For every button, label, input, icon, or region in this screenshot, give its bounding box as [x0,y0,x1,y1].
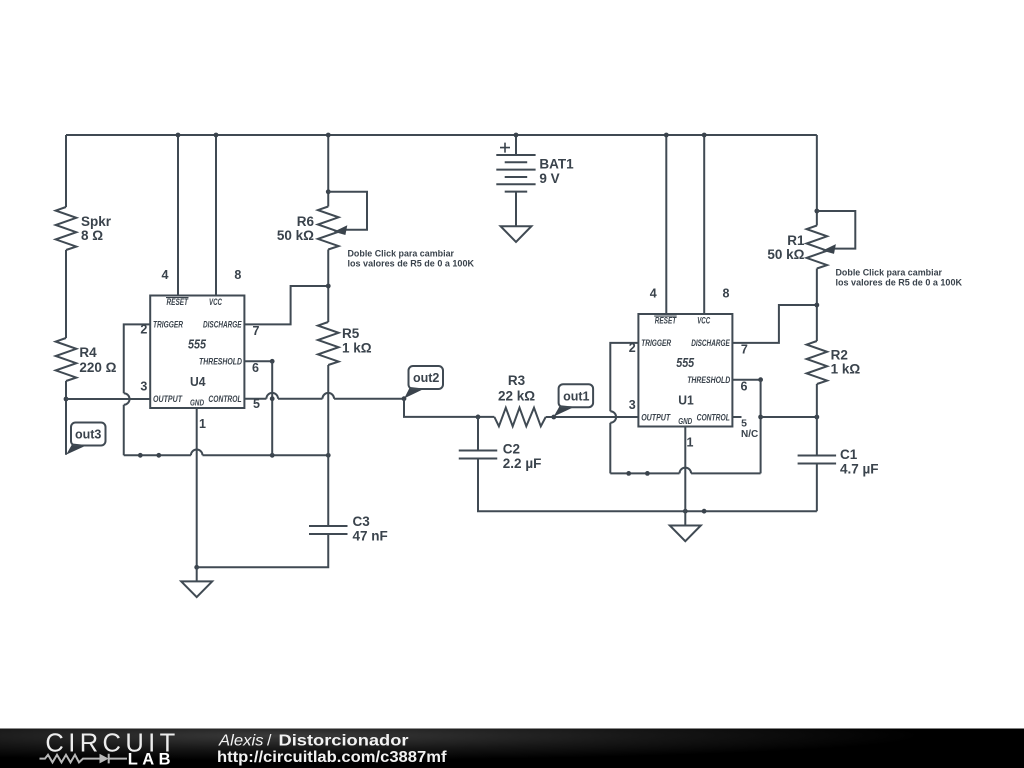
svg-text:3: 3 [629,398,636,412]
svg-text:LAB: LAB [128,751,175,768]
wire R5 bottom to rail [327,365,329,455]
resistor Spkr 8 ohm [56,207,112,250]
junction dot U1 control cross [758,415,763,420]
svg-text:50 kΩ: 50 kΩ [767,247,804,262]
junction dot C2 branch [476,415,481,420]
svg-text:out1: out1 [563,389,589,403]
wire U1 bottom rail [610,468,760,474]
svg-text:Spkr: Spkr [81,214,112,229]
svg-text:5: 5 [741,418,747,430]
svg-text:R5: R5 [342,326,360,341]
wire left column (Spkr/R4 branch) [65,135,67,455]
wire U4 pin 8 to rail [215,135,217,296]
node out3 flag [66,423,105,455]
junction dot rail pin8 U4 [214,133,219,138]
wire U4 TRIGGER pin 2 down-loop [124,324,150,455]
svg-text:1: 1 [687,436,694,450]
wire U1 pin 8 to rail [703,135,705,314]
capacitor C3 47 nF [309,514,388,544]
note double click R5 right [836,268,963,289]
ground symbol battery [501,192,532,242]
potentiometer R1 50 kohm [767,226,827,269]
junction dot rail battery [514,133,519,138]
svg-text:555: 555 [188,337,207,351]
svg-text:6: 6 [741,380,748,394]
resistor R5 1 kohm [318,322,372,365]
wire U1 DISCHARGE pin 7 to R1/R2 junction [732,305,816,343]
wire U1 threshold vertical [760,380,762,474]
svg-text:50 kΩ: 50 kΩ [277,228,314,243]
potentiometer R6 50 kohm [277,207,339,250]
svg-text:OUTPUT: OUTPUT [641,413,671,423]
note double click R5 left [348,249,475,270]
node out2 flag [404,366,443,398]
potentiometer R1 wiper loop [817,211,855,254]
junction dot R1 top [814,209,819,214]
svg-text:R4: R4 [79,345,97,360]
op-amp/timer U1 555 box [638,314,732,427]
svg-text:5: 5 [253,397,260,411]
resistor R3 22 kohm [494,373,545,426]
svg-text:4: 4 [650,287,657,301]
logo resistor-diode squiggle [40,754,128,764]
junction dot bottom rail b [156,453,161,458]
junction dot ground run U1 [683,509,688,514]
svg-text:8 Ω: 8 Ω [81,228,103,243]
junction dot ground run b [702,509,707,514]
wire U4 GND pin 1 to ground [196,408,198,567]
wire U4 CONTROL pin 5 to out2 node [244,393,404,399]
junction dot rail pin4 U1 [664,133,669,138]
junction dot C1 column [814,415,819,420]
svg-text:VCC: VCC [697,316,710,326]
wire U4 bottom rail [124,450,329,456]
svg-text:47 nF: 47 nF [353,529,388,544]
ground symbol U1 [670,511,701,541]
svg-text:4: 4 [162,268,169,282]
junction dot bottom rail threshold branch [270,453,275,458]
junction dot control/threshold cross [270,396,275,401]
svg-text:7: 7 [253,324,260,338]
junction dot R6 top [326,189,331,194]
wire threshold vertical to bottom rail [271,361,273,455]
svg-text:VCC: VCC [209,297,222,307]
junction dot U1 threshold [758,377,763,382]
svg-text:2: 2 [629,341,636,355]
svg-text:TRIGGER: TRIGGER [153,320,183,330]
svg-text:1: 1 [199,417,206,431]
svg-text:220 Ω: 220 Ω [79,360,116,375]
svg-text:GND: GND [678,416,692,426]
svg-text:C3: C3 [353,514,371,529]
svg-text:U1: U1 [678,393,694,408]
wire R3 to U1 OUTPUT [546,416,639,418]
svg-text:GND: GND [190,398,204,408]
ground symbol U4 [181,567,212,597]
svg-text:R6: R6 [297,214,315,229]
wire R4 node to U4 OUTPUT pin 3 [66,398,150,400]
svg-text:BAT1: BAT1 [539,157,574,172]
wire C3 branch [327,455,329,526]
wire U1 CONTROL pin 5 N/C stub [732,416,741,418]
svg-text:R1: R1 [787,233,805,248]
wire U1 TRIGGER pin 2 down-loop [610,343,638,474]
svg-text:6: 6 [252,361,259,375]
svg-text:R2: R2 [831,348,848,363]
svg-text:out2: out2 [413,371,439,385]
junction dot out2 node [402,396,407,401]
svg-text:2.2 µF: 2.2 µF [503,456,542,471]
node out1 flag [554,384,593,416]
svg-text:U4: U4 [190,374,206,389]
svg-text:THRESHOLD: THRESHOLD [687,375,730,385]
wire U1 GND pin 1 to ground node [684,427,686,512]
wire R6 to R5 [327,250,329,323]
svg-text:CONTROL: CONTROL [208,394,241,404]
wire top power rail [66,134,817,136]
wire C2 bottom to ground run [478,459,817,512]
pin number labels U4 [140,268,260,431]
svg-text:555: 555 [676,356,695,370]
junction dot U4 threshold [270,359,275,364]
wire U4 THRESHOLD pin 6 stub [244,360,272,362]
svg-text:N/C: N/C [741,429,758,440]
junction dot R1/R2/discharge [814,303,819,308]
wire R1 branch from rail [816,135,818,226]
svg-text:los valores de R5 de 0 a 100K: los valores de R5 de 0 a 100K [836,278,963,289]
svg-text:9 V: 9 V [539,171,559,186]
svg-text:http://circuitlab.com/c3887mf: http://circuitlab.com/c3887mf [217,749,447,766]
junction dot rail pin8 U1 [702,133,707,138]
resistor R4 220 ohm [56,338,117,381]
junction dot R6/R5/discharge [326,284,331,289]
svg-text:Distorcionador: Distorcionador [279,732,409,749]
svg-text:1 kΩ: 1 kΩ [831,362,861,377]
svg-text:TRIGGER: TRIGGER [641,338,671,348]
svg-text:CONTROL: CONTROL [697,413,730,423]
junction dot left node [64,397,69,402]
svg-text:RESET: RESET [655,316,678,326]
wire C1 bottom [816,464,818,512]
junction dot rail R6 [326,133,331,138]
capacitor C1 4.7 uF [798,447,879,477]
wire out2 to R3 [404,399,494,417]
junction dot U4 ground node [194,565,199,570]
svg-text:C1: C1 [840,447,858,462]
junction dot U1 rail a [626,471,631,476]
capacitor C2 2.2 uF [459,442,542,472]
svg-text:1 kΩ: 1 kΩ [342,341,372,356]
svg-text:22 kΩ: 22 kΩ [498,389,535,404]
svg-text:8: 8 [723,287,730,301]
wire R1 to R2 [816,269,818,342]
resistor R2 1 kohm [807,341,861,384]
svg-text:RESET: RESET [167,297,190,307]
wire U4 DISCHARGE pin 7 to R5/R6 junction [244,286,328,324]
svg-text:out3: out3 [75,428,101,442]
wire U4 pin 4 to rail [177,135,179,296]
svg-text:los valores de R5 de 0 a 100K: los valores de R5 de 0 a 100K [348,259,475,270]
junction dot rail pin4 U4 [176,133,181,138]
wire C3 bottom to ground node [197,534,329,567]
svg-text:THRESHOLD: THRESHOLD [199,356,242,366]
potentiometer R6 50k wiper loop [328,192,367,235]
svg-text:C2: C2 [503,442,520,457]
svg-text:8: 8 [234,268,241,282]
junction dot U1 rail b [645,471,650,476]
junction dot bottom rail C3 branch [326,453,331,458]
wire C2 top stub [477,417,479,451]
svg-text:R3: R3 [508,373,526,388]
wire U1 THRESHOLD pin 6 stub [732,379,760,381]
svg-text:/: / [267,732,272,749]
junction dot out1 node [551,415,556,420]
op-amp/timer U4 555 box [150,296,244,409]
wire threshold node to C1 column [761,416,817,418]
battery BAT1 9V [496,135,574,192]
wire R2 bottom to C1 [816,384,818,456]
svg-text:4.7 µF: 4.7 µF [840,462,879,477]
svg-text:DISCHARGE: DISCHARGE [203,320,242,330]
svg-text:Alexis: Alexis [218,732,264,749]
svg-text:DISCHARGE: DISCHARGE [691,338,730,348]
wire U1 pin 4 to rail [665,135,667,314]
junction dot bottom rail a [138,453,143,458]
pin number labels U1 [629,287,759,450]
svg-text:OUTPUT: OUTPUT [153,394,183,404]
svg-text:7: 7 [741,343,748,357]
svg-text:2: 2 [140,322,147,336]
svg-text:3: 3 [140,380,147,394]
wire R6 branch from rail [327,135,329,207]
